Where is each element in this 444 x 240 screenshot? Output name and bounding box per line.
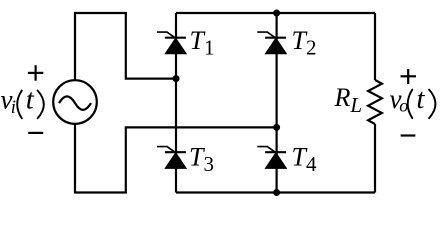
junction: top rail / right leg node	[273, 10, 280, 17]
junction: bottom rail / right leg node	[273, 189, 280, 196]
label v_o(t)	[390, 83, 436, 118]
resistor R_L	[368, 80, 382, 124]
plus sign: output polarity	[401, 69, 417, 84]
svg-text:t: t	[416, 83, 425, 115]
label v_i(t)	[1, 83, 44, 118]
wire: right bridge leg	[276, 13, 278, 193]
wire: left bridge leg	[175, 13, 177, 193]
minus sign: output polarity	[401, 134, 416, 136]
wire: source negative step (bottom of source down, right, up, right to right-leg midpoint)	[75, 123, 277, 193]
junction: left-leg midpoint node	[173, 75, 180, 82]
thyristor T3	[157, 147, 186, 169]
plus sign: source polarity	[28, 65, 43, 81]
ac source v_i(t)	[53, 80, 97, 124]
wire: load branch top	[374, 13, 376, 80]
svg-text:i: i	[11, 98, 16, 118]
thyristor T1	[157, 32, 186, 54]
thyristor T2	[257, 32, 286, 54]
wire: top rail	[176, 12, 375, 14]
wire: bottom rail	[176, 191, 375, 193]
junction: right-leg midpoint node	[273, 124, 280, 131]
minus sign: source polarity	[28, 132, 43, 134]
wire: load branch bottom	[374, 124, 376, 193]
thyristor T4	[257, 147, 286, 169]
wire: source positive step (top of source up, right, down to left-leg midpoint)	[75, 13, 176, 81]
svg-text:t: t	[26, 83, 35, 115]
